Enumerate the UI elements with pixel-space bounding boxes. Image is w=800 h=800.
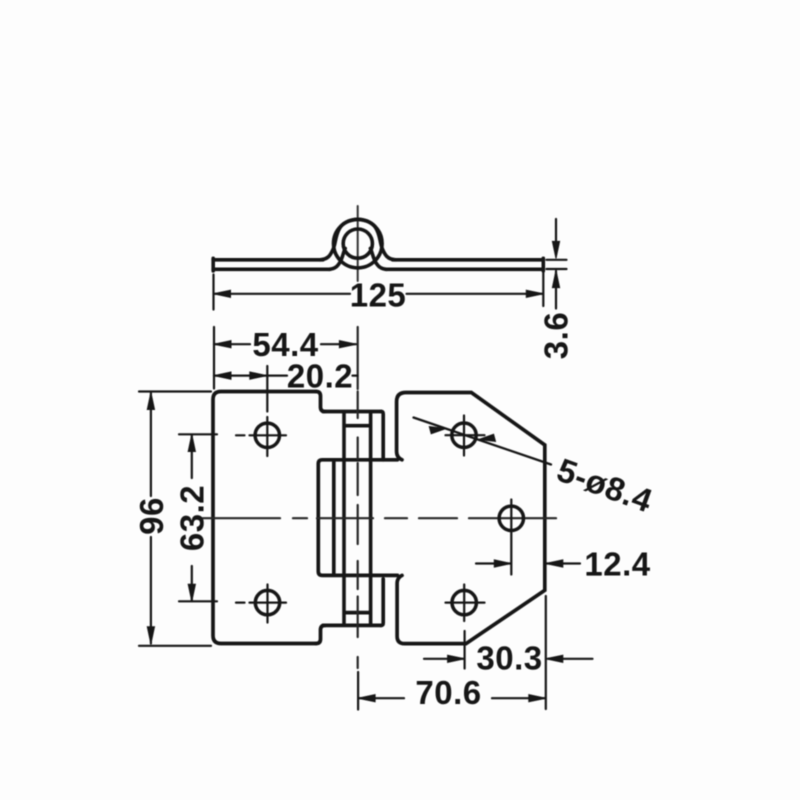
side view: hinge pin centerline [357,206,359,281]
dimension 12.4 [476,560,580,567]
svg-text:12.4: 12.4 [584,545,650,582]
plan view: middle knuckle boundaries [318,460,383,576]
dimension text 96 [133,497,170,535]
side view: pin circle [343,229,372,258]
plan view: bottom knuckle (left leaf curl) [323,579,383,625]
plan view: barrel silhouette lines [344,413,371,623]
dimension 30.3 [424,596,593,709]
side view: right leaf strap [358,219,544,271]
dimension text 125 [350,276,407,313]
plan view: top knuckle (left leaf curl) [323,412,383,459]
svg-text:30.3: 30.3 [476,640,542,677]
svg-text:96: 96 [133,497,170,535]
dimension 125 [214,272,544,310]
svg-text:63.2: 63.2 [174,485,211,551]
svg-text:3.6: 3.6 [538,312,575,359]
side view: left leaf strap [213,219,358,271]
hole bottom-left [255,590,279,614]
hole top-left [255,423,279,447]
dimension text 70.6 [415,674,481,711]
dimension text 20.2 [287,357,353,394]
svg-text:20.2: 20.2 [287,357,353,394]
dimension text 63.2 [174,485,211,551]
plan view: left leaf outline [213,392,325,644]
dimension 63.2 [179,434,217,601]
dimension text 54.4 [252,326,318,363]
svg-text:125: 125 [350,276,407,313]
dimension text 3.6 [538,312,575,359]
hole top-right [452,423,476,447]
leader 5-d8.4 [414,418,552,465]
dimension 20.2 [214,372,358,379]
svg-text:70.6: 70.6 [415,674,481,711]
dimension text 5-d8.4 [552,451,657,519]
hole middle-right [499,506,523,530]
dimension 96 [139,392,211,646]
plan view: horizontal centerline (dashed) [197,517,556,519]
dimension 70.6 [358,672,546,710]
dimension text 12.4 [584,545,650,582]
dimension 3.6 [547,219,567,309]
dimension 54.4 [214,327,356,389]
dimension text 30.3 [476,640,542,677]
plan view: pin centerline (vertical, dashed) [357,327,359,668]
hole bottom-right [452,590,476,614]
side view: knuckle barrel outer circle [334,219,383,268]
plan view: right leaf outline [383,393,545,644]
